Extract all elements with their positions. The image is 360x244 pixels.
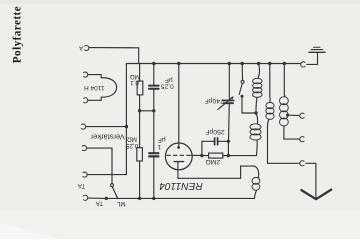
wire T2 to switch contact [87, 148, 112, 183]
svg-text:1: 1 [157, 143, 161, 150]
svg-text:MΩ: MΩ [130, 73, 140, 80]
plug wire J4 to earth symbol [307, 53, 318, 65]
terminal T2 (Verstaerker jack) [82, 146, 86, 151]
wire R2 to bottom rail [139, 161, 141, 198]
main bus wire [126, 63, 300, 65]
terminal A (antenna jack) [85, 45, 89, 50]
resistor R1 0,1 Mohm [137, 81, 143, 95]
switch S2 contact circle [241, 80, 244, 83]
coil L5 bottom lead [255, 190, 257, 198]
wire T1 to left rail [86, 126, 126, 128]
earth ground symbol [309, 51, 325, 53]
grid wire tube to RC [191, 154, 208, 156]
wire bus to switch S2 contact [241, 64, 243, 81]
svg-text:µF: µF [165, 77, 173, 84]
terminal T3 (TA jack upper) [83, 172, 87, 177]
wire from terminal A to bus [89, 48, 139, 64]
coil L5 (feedback coil) top lead [255, 166, 259, 177]
cathode wire to feedback coil [178, 166, 255, 178]
junction dots on bus [105, 62, 286, 200]
coil L2 loops [250, 124, 261, 140]
capacitor C3 250pF [214, 138, 216, 145]
headphone jack H lower [84, 98, 88, 103]
wire C1 to node [153, 89, 155, 111]
terminal T1 (headphone circuit jack) [82, 124, 86, 129]
coil L1 bottom lead [256, 98, 257, 114]
svg-text:0,25: 0,25 [125, 142, 138, 149]
switch S2 lever [239, 84, 242, 95]
wire T4 to bottom rail [88, 197, 106, 199]
svg-text:A: A [79, 45, 83, 51]
switch S2 pivot dot [241, 95, 244, 98]
coil L5 loops [252, 177, 260, 190]
jack J1 [300, 113, 304, 118]
coil L3 loops [266, 102, 274, 119]
wire T3 to left rail [88, 174, 127, 176]
svg-text:ML: ML [116, 200, 125, 207]
tube grid (dashed) [167, 154, 191, 156]
capacitor C1 0,25uF [149, 85, 159, 87]
tube cathode bar [174, 161, 183, 163]
RC upper branch wire left [202, 141, 214, 155]
resistor R2 0,25 Mohm [137, 148, 143, 161]
wire bus to tube anode [178, 64, 180, 148]
wire L3 to jack J3 [268, 126, 300, 163]
coil L4 loops [280, 97, 289, 126]
coil L3 top lead [269, 64, 272, 103]
svg-text:TA: TA [78, 182, 85, 188]
coil L4 top lead [283, 64, 286, 97]
terminal T4 (TA jack lower) [84, 195, 88, 200]
capacitor C2 1uF [149, 152, 158, 154]
svg-text:0,25: 0,25 [161, 83, 174, 90]
svg-text:0,1: 0,1 [130, 79, 139, 86]
wire cathode down [177, 162, 179, 179]
coil L2 bottom lead [255, 140, 258, 155]
left rail wire [125, 64, 127, 175]
junction dots mid node [138, 109, 141, 112]
variable capacitor C4 arrow [218, 97, 233, 109]
switch ML lever [112, 187, 117, 199]
junction dots bottom rail [105, 197, 108, 200]
bottom rail wire [106, 197, 254, 199]
svg-text:1104 H: 1104 H [84, 84, 105, 91]
svg-text:2MΩ: 2MΩ [206, 158, 221, 165]
wire L4 bottom to jack J2 [284, 126, 300, 139]
wire C2 to bottom rail [153, 157, 155, 199]
svg-text:µF: µF [158, 136, 166, 143]
switch ML contact [111, 184, 114, 187]
wire bus to resistor R1 [139, 64, 141, 82]
wire C4 to grid RC corner [228, 103, 231, 141]
resistor R3 2Mohm [209, 153, 223, 158]
svg-text:Verstärker: Verstärker [90, 133, 125, 142]
svg-text:TA: TA [96, 200, 103, 206]
headphone (earpiece dome) symbol [88, 75, 117, 101]
svg-text:MΩ: MΩ [127, 135, 137, 142]
plug wire J3 to earth arrow [306, 163, 316, 198]
svg-text:250pF: 250pF [205, 128, 224, 135]
wire node to capacitor C2 [153, 111, 155, 153]
coil L1 loops [253, 78, 262, 97]
svg-text:REN1104: REN1104 [159, 180, 203, 191]
junction dots grid RC [200, 154, 203, 157]
wire bus to variable capacitor C4 [228, 64, 230, 101]
wire node to resistor R2 [139, 111, 141, 148]
coil L4 tap dot [286, 114, 289, 117]
wire L4 tap to jack J1 [288, 114, 300, 117]
wire switch S2 to node [242, 96, 256, 113]
grid wire to coil L2 [228, 155, 256, 157]
svg-text:740pF: 740pF [205, 97, 224, 104]
tube anode dot [177, 146, 180, 149]
wire R1 to node [139, 95, 141, 111]
RC upper branch wire right [218, 141, 228, 155]
connector wire between columns [140, 110, 154, 112]
headphone jack H upper [84, 72, 88, 77]
svg-text:Polyfarette: Polyfarette [12, 6, 24, 63]
jack J2 [300, 137, 304, 142]
jack J3 [300, 161, 304, 166]
junction dot coil node [254, 111, 257, 114]
earth arrow symbol [301, 190, 331, 200]
wire bus to capacitor C1 [153, 64, 155, 86]
coil L2 (grid coil) top lead [256, 113, 258, 124]
coil L3 bottom lead [268, 120, 269, 127]
junction dot left rail T1 [125, 125, 128, 128]
antenna bus jack J4 [301, 62, 305, 67]
tube U1 envelope [165, 143, 192, 170]
coil L1 (antenna coil) lead [258, 64, 260, 79]
variable capacitor C4 740pF plates [223, 100, 234, 102]
wire R3 right [223, 155, 229, 157]
